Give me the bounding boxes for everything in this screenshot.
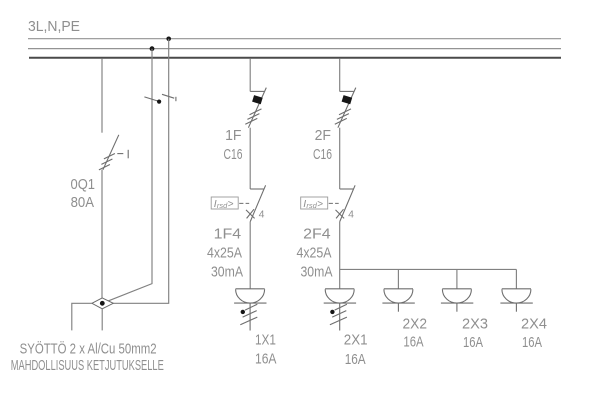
wire: 2F to RCD 2F4 (339, 128, 341, 189)
breaker 2F (335, 88, 356, 128)
svg-text:4: 4 (348, 209, 354, 221)
wire: 1F drop from bus (249, 59, 251, 92)
svg-text:16A: 16A (345, 351, 366, 368)
Irsd box (1F4) (211, 197, 238, 210)
svg-text:2F: 2F (315, 127, 331, 144)
junction dot on PE bus (166, 37, 171, 42)
bus line 3L (thick) (29, 57, 561, 59)
wire: drop to socket 2X2 (397, 269, 399, 288)
wire: N drop with diagonal to diamond (102, 49, 152, 304)
svg-text:0Q1: 0Q1 (71, 176, 96, 193)
svg-text:1F4: 1F4 (214, 226, 242, 243)
wire: RCD 1F4 to socket 1X1 (249, 222, 251, 289)
svg-text:80A: 80A (71, 194, 94, 211)
svg-text:16A: 16A (255, 351, 277, 368)
svg-text:2F4: 2F4 (303, 226, 331, 243)
RCD 2F4 (329, 185, 355, 221)
wire: supply drop to 0Q1 (101, 59, 103, 133)
switch-disconnector 0Q1 (99, 135, 128, 170)
bus line PE (top thin) (28, 38, 561, 40)
svg-text:3L,N,PE: 3L,N,PE (28, 18, 80, 35)
svg-text:C16: C16 (224, 146, 243, 163)
svg-text:30mA: 30mA (301, 264, 333, 281)
wire: PE drop down and left to diamond (113, 39, 168, 304)
svg-text:4x25A: 4x25A (207, 245, 242, 262)
link switch on N drop (144, 97, 161, 104)
Irsd box (2F4) (301, 197, 328, 210)
wire: drop to socket 2X4 (515, 269, 517, 288)
svg-text:2X1: 2X1 (344, 332, 368, 349)
svg-text:16A: 16A (522, 334, 542, 351)
stub below 2X3 (456, 303, 458, 312)
socket outlet 1X1 (234, 289, 266, 303)
PE tail below 2X1 (330, 303, 347, 331)
svg-text:1F: 1F (225, 127, 241, 144)
junction dot on N bus (150, 46, 155, 51)
stub below 2X2 (397, 303, 399, 312)
svg-text:2X2: 2X2 (403, 316, 428, 333)
svg-text:4: 4 (259, 209, 265, 221)
wire: drop to socket 2X3 (456, 269, 458, 288)
junction diamond (92, 298, 113, 309)
svg-text:2X4: 2X4 (521, 316, 547, 333)
socket outlet 2X1 (324, 289, 356, 303)
RCD 1F4 (239, 185, 265, 221)
bus line N (middle thin) (28, 48, 561, 50)
wire: 1F to RCD 1F4 (249, 128, 251, 189)
wire: 2F drop from bus (339, 59, 341, 92)
svg-text:2X3: 2X3 (462, 316, 488, 333)
svg-text:SYÖTTÖ 2 x Al/Cu 50mm2: SYÖTTÖ 2 x Al/Cu 50mm2 (20, 340, 157, 358)
svg-text:16A: 16A (463, 334, 483, 351)
svg-text:4x25A: 4x25A (297, 245, 332, 262)
svg-text:MAHDOLLISUUS KETJUTUKSELLE: MAHDOLLISUUS KETJUTUKSELLE (11, 357, 164, 374)
wire: 0Q1 to junction diamond (101, 170, 103, 298)
svg-text:C16: C16 (313, 146, 332, 163)
wire: RCD 2F4 down to socket 2X1 (339, 222, 341, 289)
link switch on PE drop (162, 94, 176, 101)
socket outlet 2X4 (500, 289, 532, 303)
socket outlet 2X3 (441, 289, 473, 303)
svg-text:1X1: 1X1 (255, 332, 276, 349)
stub below 2X4 (515, 303, 517, 312)
junction dot in diamond (100, 301, 105, 306)
wire: diamond to left supply tail (72, 303, 92, 330)
svg-text:30mA: 30mA (211, 264, 243, 281)
PE tail below 1X1 (240, 303, 257, 331)
wire: diamond bottom supply tail (101, 309, 103, 331)
socket outlet 2X2 (382, 289, 414, 303)
svg-text:16A: 16A (403, 334, 423, 351)
breaker 1F (245, 88, 266, 128)
wire: feed line to sockets 2X2-2X4 (340, 268, 517, 270)
